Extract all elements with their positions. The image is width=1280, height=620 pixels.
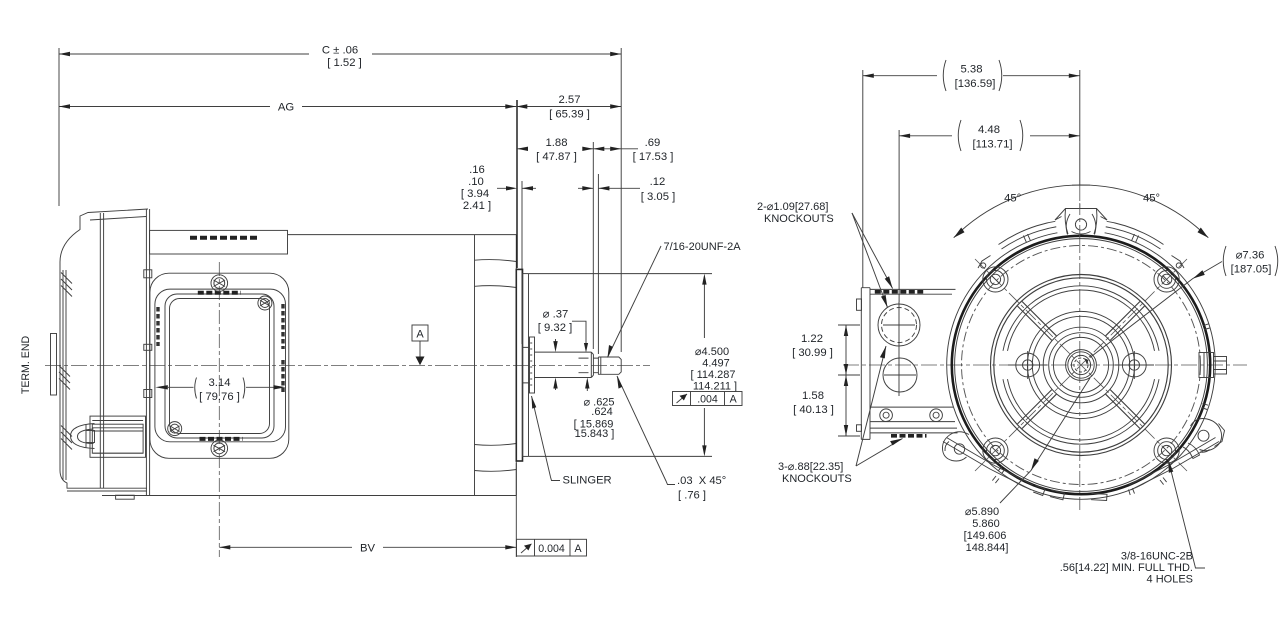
screw bottom-left xyxy=(168,422,182,436)
svg-text:A: A xyxy=(416,329,424,341)
box left plate xyxy=(857,288,871,440)
svg-text:7/16-20UNF-2A: 7/16-20UNF-2A xyxy=(664,241,742,253)
leaders 2-Ø1.09 knockouts xyxy=(852,213,893,308)
dimension Ø.625 arrows and text xyxy=(585,378,589,392)
dimension 3.14 inside box xyxy=(155,378,286,399)
svg-text:3-⌀.88[22.35]: 3-⌀.88[22.35] xyxy=(778,461,843,473)
conduit box right view xyxy=(857,288,958,440)
svg-text:[187.05]: [187.05] xyxy=(1231,264,1272,276)
dimension 1.22 xyxy=(838,325,860,436)
leader chamfer .03 X 45 xyxy=(617,376,675,485)
dimension C overall xyxy=(59,52,621,56)
dimension BV xyxy=(219,463,516,557)
svg-text:[ 3.05 ]: [ 3.05 ] xyxy=(641,191,676,203)
svg-text:TERM. END: TERM. END xyxy=(20,336,32,395)
bolt hole bottom-left xyxy=(983,438,1008,463)
svg-text:[ 65.39 ]: [ 65.39 ] xyxy=(549,109,590,121)
bottom bumps xyxy=(1033,486,1107,501)
svg-text:[113.71]: [113.71] xyxy=(973,139,1013,151)
datum A flag xyxy=(412,325,428,365)
intermediate rings xyxy=(1027,311,1134,418)
leaders 3-Ø.88 knockouts xyxy=(856,346,903,466)
svg-text:[ 47.87 ]: [ 47.87 ] xyxy=(536,151,577,163)
svg-text:A: A xyxy=(730,394,738,406)
right side tab xyxy=(1199,353,1227,378)
extension line flange face (bold) xyxy=(516,100,518,268)
svg-text:[ 9.32 ]: [ 9.32 ] xyxy=(538,322,573,334)
dimension 1.58 xyxy=(844,375,848,436)
svg-text:.56[14.22] MIN. FULL THD.: .56[14.22] MIN. FULL THD. xyxy=(1060,562,1193,574)
keyway mark xyxy=(1084,358,1088,364)
conduit box vertical centerline xyxy=(218,262,220,557)
conduit box cover xyxy=(155,289,286,442)
flange outer circle (bold) xyxy=(952,236,1210,494)
dimension 1.88 xyxy=(517,147,593,151)
lifting eye hook xyxy=(71,424,95,449)
dimensions of right view xyxy=(757,60,1278,586)
svg-text:45°: 45° xyxy=(1004,193,1021,205)
C-face flange plate xyxy=(516,269,522,461)
dimension .69 tip length xyxy=(593,147,638,151)
seat circle double xyxy=(991,275,1172,456)
knockout small xyxy=(883,358,917,392)
svg-text:KNOCKOUTS: KNOCKOUTS xyxy=(764,213,834,225)
bottom-right foot ear xyxy=(1183,418,1225,458)
dimension .16/.10 gap xyxy=(497,186,536,190)
svg-text:4 HOLES: 4 HOLES xyxy=(1147,574,1193,586)
bolt hole top-right xyxy=(1154,267,1179,292)
casing bottom-right flat skirt xyxy=(1129,438,1219,490)
svg-text:5.38: 5.38 xyxy=(961,64,983,76)
bottom-left foot ear xyxy=(942,432,969,461)
knockout centerlines xyxy=(883,302,916,396)
dimension AG xyxy=(59,104,516,108)
terminal clamp block xyxy=(90,416,146,457)
conduit box hatch strips xyxy=(198,293,243,439)
slinger xyxy=(530,337,535,393)
dimension 4.48 xyxy=(899,120,1080,151)
screw bottom-center xyxy=(211,440,228,457)
hub rings xyxy=(1043,327,1119,403)
svg-text:2.57: 2.57 xyxy=(559,94,581,106)
bearing hub xyxy=(523,347,530,383)
body bell seam and contours xyxy=(475,235,517,496)
extension line box left face xyxy=(862,70,864,288)
45 degree arc dimension xyxy=(954,185,1209,238)
svg-text:KNOCKOUTS: KNOCKOUTS xyxy=(782,473,852,485)
top mounting ear xyxy=(1055,203,1107,240)
svg-text:0.004: 0.004 xyxy=(538,543,565,555)
flange pilot rabbet xyxy=(523,274,529,457)
svg-text:[ 40.13 ]: [ 40.13 ] xyxy=(793,404,834,416)
conduit box gasket lines xyxy=(165,294,274,438)
dimension .12 neck xyxy=(578,186,640,190)
knockout large xyxy=(878,304,920,346)
leader SLINGER xyxy=(532,396,561,481)
svg-text:4.48: 4.48 xyxy=(978,124,1000,136)
svg-text:.10: .10 xyxy=(468,176,484,188)
leader Ø5.890 xyxy=(1000,378,1090,503)
casing outer circle xyxy=(947,231,1216,500)
svg-text:[149.606: [149.606 xyxy=(964,530,1007,542)
dimension Ø.37 arrows xyxy=(553,321,588,390)
svg-text:⌀4.500: ⌀4.500 xyxy=(695,346,729,358)
svg-text:[ 1.52 ]: [ 1.52 ] xyxy=(327,57,362,69)
svg-text:1.88: 1.88 xyxy=(546,137,568,149)
box top knockout strip xyxy=(875,290,923,294)
box bottom edge xyxy=(870,428,958,433)
svg-text:[ 114.287: [ 114.287 xyxy=(690,369,735,381)
svg-text:[136.59]: [136.59] xyxy=(955,78,996,90)
leader 3/8-16UNC-2B xyxy=(1168,460,1205,568)
svg-text:1.22: 1.22 xyxy=(801,333,823,345)
svg-text:SLINGER: SLINGER xyxy=(563,475,612,487)
motor body outline xyxy=(102,235,516,496)
extension line hub xyxy=(521,181,523,344)
screw top-center xyxy=(211,275,228,292)
svg-text:.12: .12 xyxy=(650,176,666,188)
shaft Ø.625 xyxy=(535,337,594,393)
svg-text:45°: 45° xyxy=(1143,193,1160,205)
motor axis centerline xyxy=(45,365,650,367)
extension line knockout center xyxy=(898,130,900,302)
extension line shaft tip xyxy=(620,48,622,352)
svg-text:3/8-16UNC-2B: 3/8-16UNC-2B xyxy=(1121,551,1193,563)
svg-text:[ 79.76 ]: [ 79.76 ] xyxy=(199,391,240,403)
svg-text:2-⌀1.09[27.68]: 2-⌀1.09[27.68] xyxy=(757,201,828,213)
screw top-right xyxy=(258,296,272,310)
extension line left of motor xyxy=(58,48,60,206)
leader 7/16-20UNF-2A xyxy=(608,246,662,358)
svg-text:[ 17.53 ]: [ 17.53 ] xyxy=(633,151,674,163)
svg-text:[ 3.94: [ 3.94 xyxy=(461,188,489,200)
svg-text:148.844]: 148.844] xyxy=(966,542,1009,554)
side tapped hole right xyxy=(1115,351,1154,379)
flange and shaft xyxy=(516,269,621,461)
fan end cap outline xyxy=(60,209,150,499)
svg-text:A: A xyxy=(574,543,582,555)
extension line shaft end xyxy=(592,142,594,349)
box inner lines xyxy=(870,407,955,422)
extension line neck right xyxy=(597,174,599,354)
diagonal centerline 135-315 xyxy=(975,259,1187,471)
svg-text:3.14: 3.14 xyxy=(209,377,231,389)
end cap capacitor tab xyxy=(51,334,57,396)
svg-text:⌀ .37: ⌀ .37 xyxy=(543,309,569,321)
svg-text:1.58: 1.58 xyxy=(802,390,824,402)
shaft inner extension lines xyxy=(579,358,589,373)
right view: motor end elevation, center (1081,365) xyxy=(843,185,1247,510)
dimension Ø4.500 rabbet xyxy=(529,274,712,457)
center shaft rings xyxy=(1066,350,1097,381)
bolt circle (dash-dot) xyxy=(962,246,1201,485)
flange inner edge circle xyxy=(955,239,1208,492)
extension line view centerline top xyxy=(1079,70,1081,185)
runout FCF at Ø4.500 xyxy=(673,392,743,406)
X-brace spokes xyxy=(1018,302,1145,429)
svg-text:.69: .69 xyxy=(645,137,661,149)
svg-text:2.41 ]: 2.41 ] xyxy=(463,200,491,212)
svg-text:4.497: 4.497 xyxy=(702,358,730,370)
end cap seam tabs xyxy=(144,270,152,398)
svg-text:.004: .004 xyxy=(697,394,718,406)
shaft neck xyxy=(593,358,598,373)
small ear 135 xyxy=(978,256,991,269)
box screws xyxy=(880,409,893,422)
casing ribs xyxy=(992,234,1209,495)
TERM. END label xyxy=(20,336,32,395)
svg-text:114.211 ]: 114.211 ] xyxy=(693,381,737,393)
svg-text:[ .76 ]: [ .76 ] xyxy=(678,490,706,502)
left view: motor side elevation xyxy=(20,209,650,557)
bolt hole top-left xyxy=(983,267,1008,292)
side tapped hole left xyxy=(1008,351,1047,379)
dimensions of left view xyxy=(59,45,675,558)
diagonal centerline 45-225 xyxy=(975,259,1187,471)
conduit box outer xyxy=(150,273,289,458)
svg-text:.16: .16 xyxy=(469,164,485,176)
dimension 5.38 xyxy=(863,60,1080,91)
threaded tip 7/16-20UNF-2A xyxy=(598,357,621,374)
end cap vent slots xyxy=(59,273,72,450)
box bottom knockout strip xyxy=(891,434,927,438)
svg-text:.624: .624 xyxy=(591,406,612,418)
svg-text:⌀5.890: ⌀5.890 xyxy=(965,506,999,518)
vertical centerline xyxy=(1079,185,1081,510)
conduit box side tabs xyxy=(158,304,283,392)
svg-text:⌀7.36: ⌀7.36 xyxy=(1236,250,1265,262)
svg-text:15.843 ]: 15.843 ] xyxy=(575,428,615,440)
svg-text:[ 30.99 ]: [ 30.99 ] xyxy=(792,347,833,359)
box top edge xyxy=(870,289,956,294)
horizontal centerline xyxy=(843,364,1247,366)
small ear 45 xyxy=(1172,256,1185,269)
casing bottom-left flat skirt xyxy=(943,438,1033,490)
conduit box top plate xyxy=(150,230,288,254)
dimension 2.57 shaft extension xyxy=(516,104,621,108)
face circle double (gaps at horizontal axis) xyxy=(1003,286,1159,444)
bolt hole bottom-right xyxy=(1154,438,1179,463)
svg-text:.03 X 45°: .03 X 45° xyxy=(677,475,726,487)
runout FCF at BV xyxy=(517,539,587,556)
svg-text:C ± .06: C ± .06 xyxy=(322,45,358,57)
svg-text:BV: BV xyxy=(360,542,376,554)
top raised band arcs xyxy=(999,219,1164,249)
leader and text Ø7.36 xyxy=(1090,246,1278,358)
svg-text:AG: AG xyxy=(278,102,294,114)
svg-text:5.860: 5.860 xyxy=(972,518,1000,530)
